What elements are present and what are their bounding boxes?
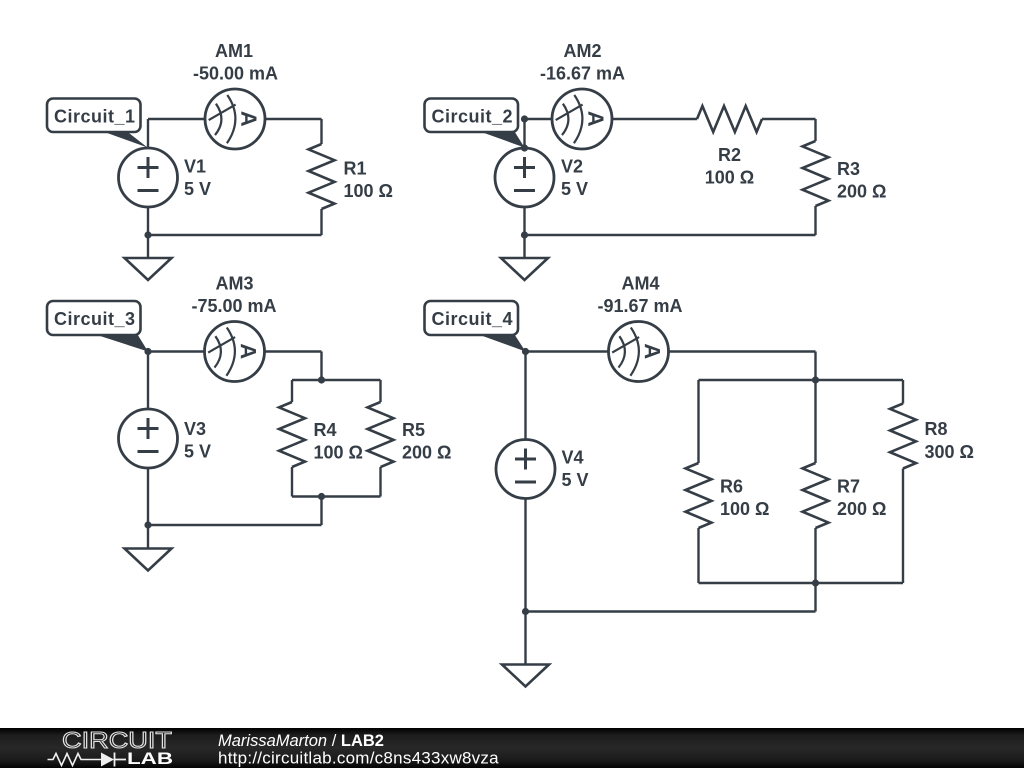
svg-text:AM1: AM1: [215, 41, 253, 61]
svg-text:300 Ω: 300 Ω: [925, 442, 974, 462]
svg-text:AM3: AM3: [215, 274, 253, 294]
svg-text:100 Ω: 100 Ω: [705, 168, 754, 188]
svg-text:R2: R2: [718, 145, 741, 165]
svg-text:R5: R5: [402, 420, 425, 440]
svg-text:200 Ω: 200 Ω: [402, 443, 451, 463]
svg-text:MarissaMarton / LAB2: MarissaMarton / LAB2: [218, 732, 384, 750]
svg-text:V1: V1: [184, 157, 206, 177]
svg-text:200 Ω: 200 Ω: [837, 499, 886, 519]
svg-text:http://circuitlab.com/c8ns433x: http://circuitlab.com/c8ns433xw8vza: [218, 749, 499, 768]
svg-text:-91.67 mA: -91.67 mA: [597, 296, 682, 316]
svg-text:100 Ω: 100 Ω: [314, 443, 363, 463]
svg-text:R7: R7: [837, 477, 860, 497]
svg-text:5 V: 5 V: [184, 179, 211, 199]
svg-text:R3: R3: [837, 159, 860, 179]
svg-text:V3: V3: [184, 419, 206, 439]
svg-text:5 V: 5 V: [184, 442, 211, 462]
svg-text:AM4: AM4: [621, 274, 659, 294]
svg-text:AM2: AM2: [563, 41, 601, 61]
svg-text:5 V: 5 V: [561, 179, 588, 199]
svg-text:-16.67 mA: -16.67 mA: [540, 64, 625, 84]
svg-text:LAB: LAB: [127, 749, 173, 768]
svg-text:V4: V4: [562, 448, 584, 468]
svg-text:-50.00 mA: -50.00 mA: [193, 64, 278, 84]
svg-text:Circuit_2: Circuit_2: [432, 107, 514, 127]
svg-text:R6: R6: [720, 477, 743, 497]
svg-text:5 V: 5 V: [562, 470, 589, 490]
svg-text:R8: R8: [925, 419, 948, 439]
svg-text:Circuit_4: Circuit_4: [432, 309, 514, 329]
svg-text:V2: V2: [561, 157, 583, 177]
svg-text:200 Ω: 200 Ω: [837, 182, 886, 202]
svg-text:100 Ω: 100 Ω: [720, 499, 769, 519]
svg-text:R4: R4: [314, 420, 337, 440]
svg-text:Circuit_1: Circuit_1: [54, 107, 136, 127]
svg-text:-75.00 mA: -75.00 mA: [191, 296, 276, 316]
svg-text:100 Ω: 100 Ω: [344, 181, 393, 201]
svg-text:Circuit_3: Circuit_3: [54, 309, 136, 329]
svg-text:R1: R1: [344, 159, 367, 179]
